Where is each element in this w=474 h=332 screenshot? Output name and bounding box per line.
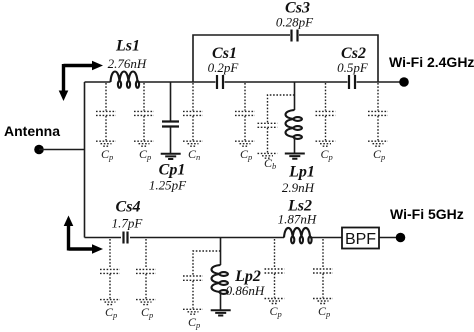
svg-text:Cs4: Cs4	[116, 199, 141, 216]
capacitor Cs2	[337, 45, 369, 89]
svg-text:Wi-Fi 2.4GHz: Wi-Fi 2.4GHz	[389, 54, 474, 70]
node Wi-Fi 2.4GHz	[389, 54, 474, 87]
capacitor Cp shunt 1	[96, 83, 116, 162]
svg-text:Cp1: Cp1	[159, 162, 186, 179]
wire bottom rail	[85, 237, 397, 239]
svg-text:Wi-Fi 5GHz: Wi-Fi 5GHz	[390, 206, 464, 222]
capacitor Cp shunt 11	[313, 239, 333, 319]
capacitor Cp shunt 10	[265, 239, 285, 319]
node Wi-Fi 5GHz	[390, 206, 464, 242]
wire left vertical trunk	[84, 82, 86, 238]
capacitor Cp shunt 8	[136, 239, 156, 320]
capacitor Cp shunt 2	[134, 83, 154, 162]
capacitor Cp shunt 5	[316, 83, 336, 162]
svg-text:Ls1: Ls1	[115, 38, 140, 55]
capacitor Cp shunt 7	[100, 239, 120, 320]
capacitor Cp shunt 4	[235, 83, 255, 162]
capacitor Cb shunt	[258, 95, 295, 171]
svg-text:0.5pF: 0.5pF	[337, 60, 369, 75]
inductor Lp2	[211, 238, 265, 316]
svg-text:2.76nH: 2.76nH	[108, 56, 147, 71]
block BPF	[342, 228, 379, 249]
arrow to 2.4GHz branch	[59, 61, 103, 101]
wire Cs3 bypass loop	[193, 35, 378, 82]
capacitor Cp shunt 3	[183, 83, 203, 162]
svg-text:BPF: BPF	[345, 231, 376, 248]
svg-text:Lp1: Lp1	[288, 164, 315, 181]
svg-text:0.2pF: 0.2pF	[208, 60, 240, 75]
node Antenna	[4, 123, 85, 154]
svg-text:1.25pF: 1.25pF	[149, 178, 187, 193]
capacitor Cp shunt 6	[368, 83, 388, 162]
svg-text:1.87nH: 1.87nH	[278, 212, 317, 227]
svg-text:0.28pF: 0.28pF	[276, 15, 314, 30]
inductor Lp1	[282, 82, 315, 195]
svg-text:1.7pF: 1.7pF	[112, 216, 144, 231]
capacitor Cp shunt 9 elbow	[183, 251, 221, 330]
svg-text:2.9nH: 2.9nH	[282, 180, 315, 195]
svg-text:Antenna: Antenna	[4, 123, 60, 139]
wire top rail	[85, 81, 405, 83]
capacitor Cp1	[149, 82, 187, 193]
svg-text:0.86nH: 0.86nH	[226, 283, 265, 298]
inductor Ls1	[108, 38, 147, 88]
capacitor Cs1	[208, 45, 240, 89]
capacitor Cs4	[112, 199, 144, 244]
inductor Ls2	[278, 198, 317, 244]
arrow to 5GHz branch	[64, 216, 103, 254]
capacitor Cs3	[276, 0, 314, 42]
